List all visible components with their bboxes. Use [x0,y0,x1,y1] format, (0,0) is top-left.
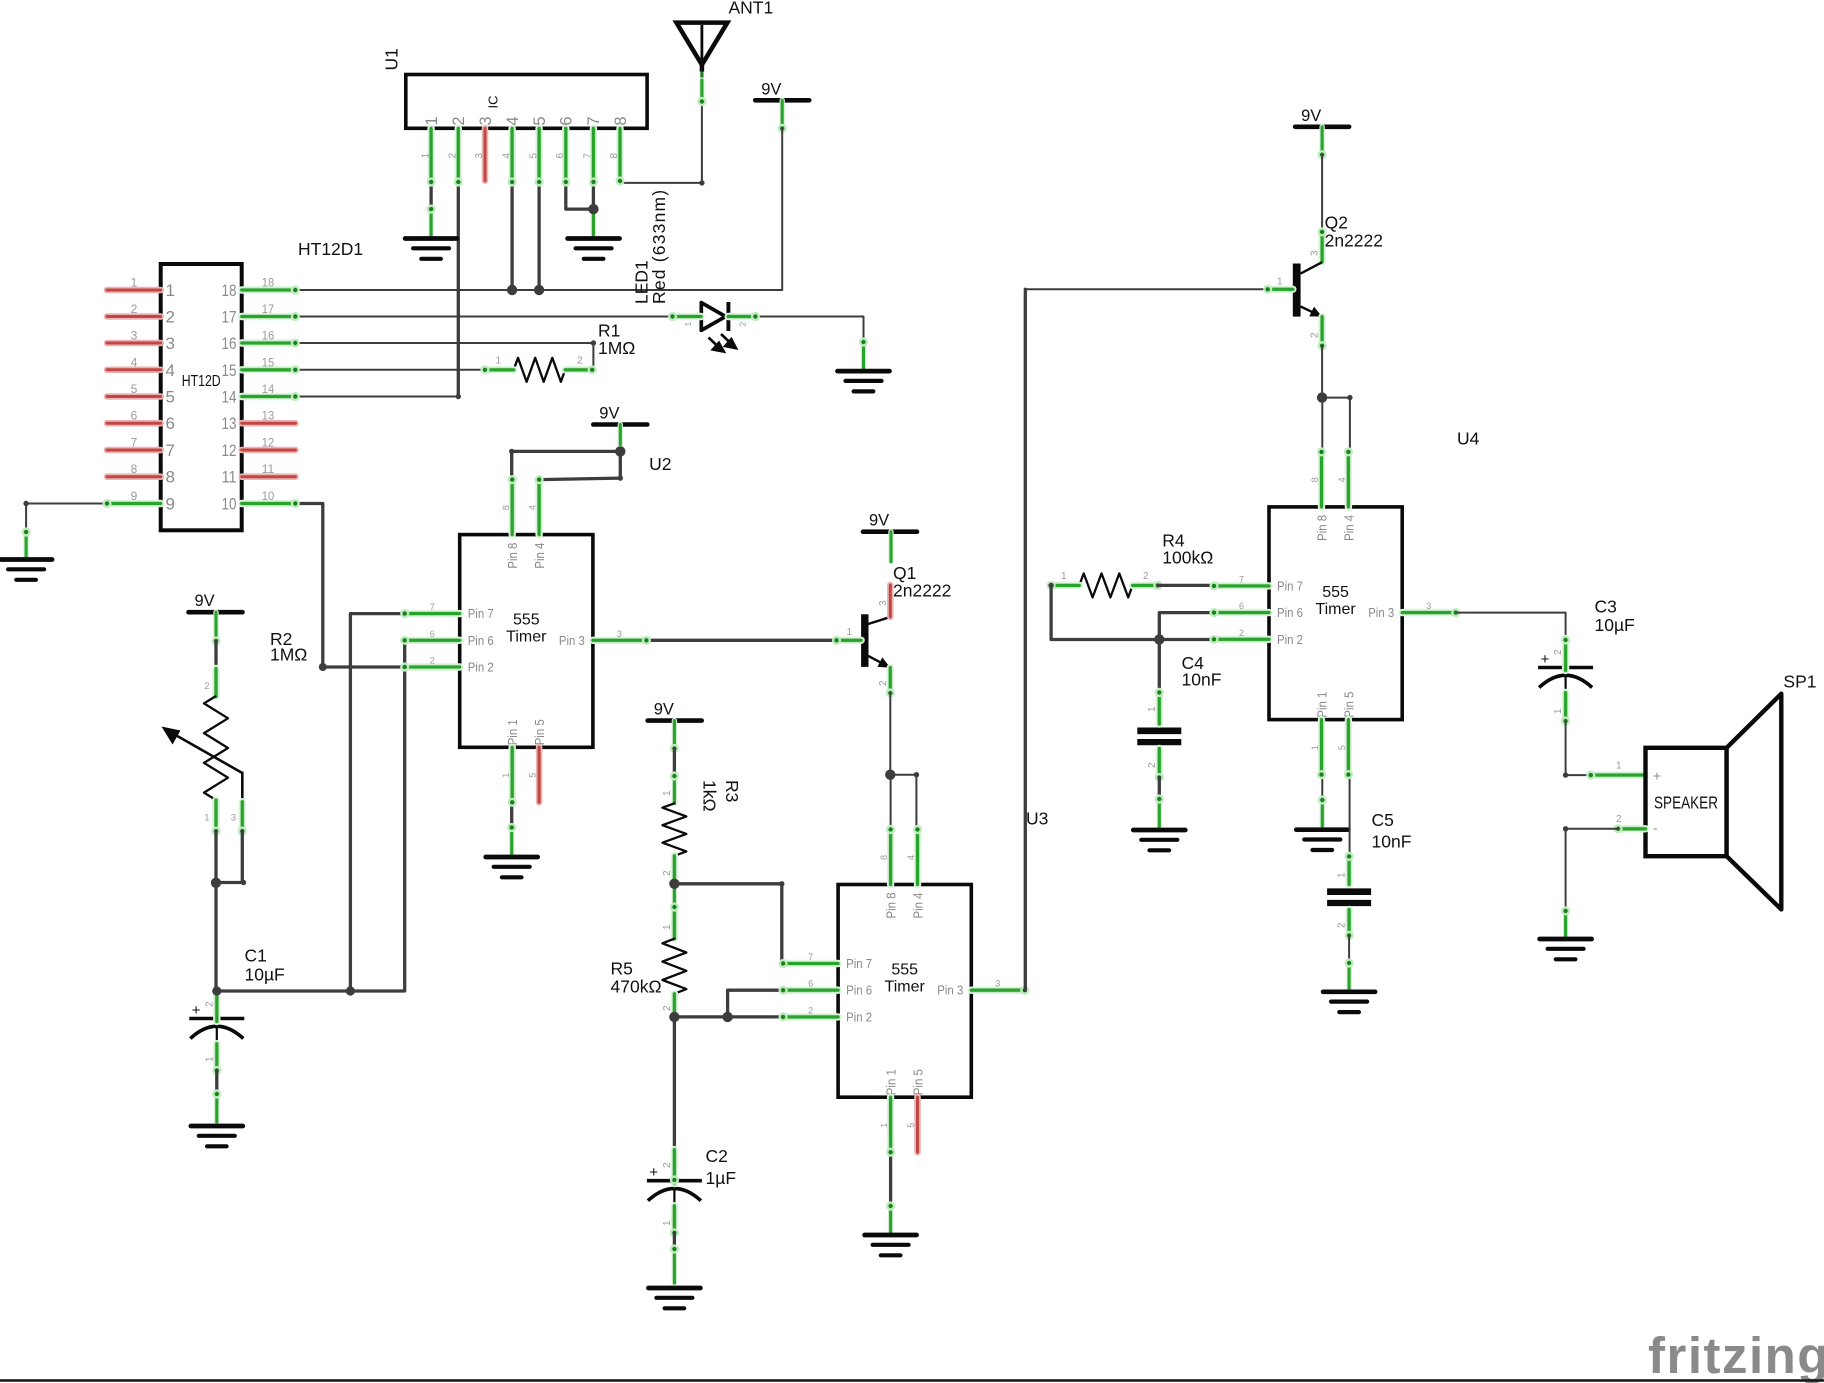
pin 17 of HT12D1 [242,312,300,321]
pin 3 of U2 [593,636,651,645]
pin 1 of U3 [886,1097,895,1157]
pin 1 of Q1 (base) [832,636,861,645]
pin 11 of HT12D1 (unconnected) [242,473,296,480]
pin 5 of U4 [1344,720,1353,780]
node: U4 branch corner [1347,395,1352,400]
wire: node to U4 pin4 branch [1322,398,1350,453]
green wire end: U3 pin1 ground segment [886,1201,895,1235]
svg-text:4: 4 [1337,477,1347,482]
ground: under U1 pin7 [568,239,620,259]
capacitor C3 [1538,651,1593,693]
svg-text:2: 2 [808,1005,813,1015]
pin 2 of LED1 (cathode) [728,312,760,321]
svg-text:8: 8 [879,855,889,860]
svg-text:9V: 9V [869,512,889,530]
wire: C3 to speaker plus [1566,721,1592,775]
ground: U2 pin1 [486,857,538,877]
svg-text:IC: IC [486,96,501,109]
svg-text:11: 11 [262,462,275,476]
svg-text:+: + [192,1002,201,1019]
wire: U1 pin4 down to 9V rail net [510,182,513,290]
wire: U2 pin3 to Q1 base [646,639,836,642]
wire: C2 to ground [673,1233,676,1250]
node: speaker minus wire corner [1563,826,1568,831]
svg-text:+: + [649,1164,658,1181]
svg-text:3: 3 [131,329,138,343]
svg-text:6: 6 [131,409,138,423]
svg-text:1MΩ: 1MΩ [598,338,635,358]
svg-text:2: 2 [1616,814,1622,825]
svg-text:9V: 9V [654,701,674,719]
green wire end: HT12D pin9 ground segment [22,527,31,558]
svg-text:4: 4 [906,855,916,860]
capacitor C5 [1327,892,1371,903]
pin 6 of U1 [561,128,570,186]
svg-text:3: 3 [617,629,622,639]
pin 3 of U4 [1402,608,1460,617]
power symbol 9V (above U2) [593,405,647,425]
pin 7 of U4 [1209,581,1269,590]
pin 2 of SP1 [1614,824,1646,833]
svg-text:2: 2 [450,116,468,125]
svg-text:1: 1 [496,356,502,367]
pin 2 of R5 [671,994,678,1017]
pin 3 of Q1 (collector, unconnected) [887,585,894,617]
svg-text:6: 6 [555,153,566,159]
wire: 9V to U2 pin8 [619,450,622,478]
svg-text:Timer: Timer [885,979,926,996]
555 timer U2 body [460,535,593,748]
svg-text:Pin 5: Pin 5 [1342,692,1356,718]
svg-text:100kΩ: 100kΩ [1162,548,1213,568]
pin 2 of C1 [213,993,220,1022]
svg-text:5: 5 [1337,745,1347,750]
capacitor C2 [647,1164,702,1206]
pin 3 of U1 (unconnected) [482,128,489,180]
wire: node down to U4 pin8 [1321,398,1323,453]
node: branch corner [914,772,919,777]
ground: SP1 [1540,939,1592,959]
svg-text:U2: U2 [649,454,671,474]
svg-text:7: 7 [583,153,594,159]
wire: HT12D pin17 to LED1 [296,316,673,318]
svg-text:9V: 9V [761,80,781,98]
pin 4 of U2 [535,475,544,535]
wire: HT12D pin14 to U1 pin2 [296,396,458,398]
svg-text:Pin 3: Pin 3 [1368,606,1394,620]
svg-text:8: 8 [612,116,630,125]
svg-text:5: 5 [906,1123,916,1128]
svg-text:3: 3 [477,116,495,125]
pin 1 of C2 [670,1206,679,1238]
svg-text:1: 1 [1061,571,1067,582]
pin 1 of R1 [480,365,513,374]
svg-text:8: 8 [609,153,620,159]
svg-text:Pin 7: Pin 7 [846,957,872,971]
pin 8 of U4 [1317,447,1326,507]
wire: U2 pin7 to C1 node [350,614,404,991]
svg-text:Pin 6: Pin 6 [1277,606,1303,620]
svg-text:Pin 8: Pin 8 [506,543,520,569]
svg-text:Pin 3: Pin 3 [559,634,585,648]
pin 6 of U4 [1209,608,1269,617]
wire: HT12D pin16 to R1 pin2 [296,343,593,370]
pin 7 of HT12D1 (unconnected) [107,447,161,454]
ground: C5 [1323,992,1375,1012]
wire: U2 pin1 to ground [510,802,513,829]
svg-text:2: 2 [662,1162,673,1168]
svg-text:1: 1 [131,276,138,290]
svg-text:Pin 4: Pin 4 [912,892,926,918]
green wire end: U2 pin1 ground segment [507,823,516,856]
svg-text:3: 3 [1426,601,1431,611]
pin 6 of U3 [779,986,839,995]
wire: LED1 cathode to ground [755,317,863,344]
wire: HT12D pin9 to ground [26,504,107,533]
wire: U1 pin6 jog to pin7 [566,182,594,209]
pin 5 of U3 (unconnected) [914,1097,921,1152]
pin 1 of C5 [1345,852,1354,885]
wire: U2 pin6 to C1 node [217,640,405,991]
svg-text:3: 3 [1310,250,1321,256]
wire: C2 to R5 node [673,1017,676,1151]
pin 2 of Q1 (emitter) [886,668,895,698]
svg-text:Pin 6: Pin 6 [846,984,872,998]
transistor Q2 [1293,262,1322,316]
wire: 9V to R2 pin2 [214,641,217,670]
svg-text:8: 8 [131,462,138,476]
wire: pot node down to C1 node [214,883,217,991]
green wire end: U1 pin7 lower segment [591,209,596,236]
wire: 9V down to pin18 rail [781,128,783,290]
svg-text:8: 8 [501,505,511,510]
svg-text:Pin 5: Pin 5 [912,1069,926,1095]
wire: HT12D pin18 rail horizontal [296,289,782,291]
green wire end: C5 ground segment [1345,958,1354,988]
pin 2 of R3 [671,856,678,884]
wire: 9V to R3 [673,748,676,777]
pin 2 of C2 [670,1150,679,1185]
svg-text:2: 2 [662,1005,673,1011]
junction: C4 node [1154,634,1164,644]
svg-text:4: 4 [131,355,138,369]
wire: U3 pin1 to ground [889,1153,892,1208]
svg-text:18: 18 [262,276,275,290]
svg-text:17: 17 [262,302,275,316]
pin 2 of C5 [1345,910,1354,941]
pin 8 of HT12D1 (unconnected) [107,473,161,480]
svg-text:18: 18 [222,281,237,300]
wire: speaker minus to ground [1566,829,1619,912]
svg-text:R5: R5 [611,959,633,979]
wire: R3 node to U3 pin7 [674,884,838,964]
svg-text:3: 3 [878,600,889,606]
pin 10 of HT12D1 [242,499,300,508]
junction: R5-C2 node [669,1012,679,1022]
svg-text:10µF: 10µF [245,965,285,985]
svg-text:2: 2 [1147,762,1158,768]
wire: R5 node to U3 pin2 [674,1015,838,1018]
svg-text:470kΩ: 470kΩ [611,977,662,997]
svg-text:14: 14 [222,388,237,407]
svg-text:1: 1 [420,153,431,159]
svg-text:17: 17 [222,308,237,327]
pin 2 of R1 [565,365,597,374]
svg-text:2: 2 [1143,571,1149,582]
pin 1 of Q2 (base) [1263,285,1293,294]
pin 1 of C1 [212,1044,221,1075]
svg-text:HT12D1: HT12D1 [298,239,363,259]
ground: HT12D pin9 [0,560,52,580]
node: R4 pin1 wire corner [1048,583,1053,588]
pin of 9V above R2 [211,612,220,645]
svg-text:6: 6 [166,414,175,433]
pin 3 of Q2 (collector) [1318,227,1327,261]
svg-text:9: 9 [166,495,175,514]
svg-text:2: 2 [577,356,583,367]
node: pin9 wire corner [23,501,28,506]
svg-text:Pin 3: Pin 3 [937,984,963,998]
node: pin7 wire corner [779,881,784,886]
capacitor C4 [1137,731,1181,742]
svg-text:C2: C2 [706,1146,728,1166]
pin of 9V above U2 [616,425,625,455]
svg-text:HT12D: HT12D [182,373,221,390]
svg-text:3: 3 [166,334,175,353]
node: U2 pin8 wire corner [509,449,514,454]
svg-text:3: 3 [231,813,236,824]
pin 2 of U1 [454,128,463,186]
resistor R4 [1079,573,1132,597]
wire: R2 pin1 down to node [214,831,217,883]
svg-text:14: 14 [262,382,275,396]
svg-text:Pin 7: Pin 7 [468,607,494,621]
pin 2 of C3 [1561,635,1570,670]
wire: C4 node down to C4 [1158,640,1161,694]
svg-text:7: 7 [131,436,138,450]
svg-text:1: 1 [1277,277,1283,288]
svg-text:1: 1 [662,1220,673,1226]
pin 4 of U1 [507,128,516,186]
svg-text:8: 8 [166,468,175,487]
resistor R3 [662,803,686,856]
power symbol 9V (above Q1) [863,512,917,532]
svg-text:7: 7 [166,441,175,460]
pin 7 of U1 [589,128,598,186]
IC HT12D1 body [161,264,242,530]
pin 1 of R2 [211,800,220,836]
pin 5 of U2 (unconnected) [536,747,543,802]
ground: under U1 pin1 [405,239,457,259]
svg-text:4: 4 [166,361,175,380]
pin 1 of R4 [1047,581,1080,590]
svg-text:5: 5 [531,116,549,125]
green wire end: U4 pin1 ground segment [1318,795,1327,826]
svg-text:4: 4 [501,153,512,159]
pin 1 of SP1 [1586,771,1645,780]
svg-text:7: 7 [1239,574,1244,584]
wire: U3 pin3 up to Q2 base [1023,289,1027,990]
svg-text:12: 12 [222,441,237,460]
pin 4 of HT12D1 (unconnected) [107,366,161,373]
svg-text:Pin 2: Pin 2 [1277,633,1303,647]
wire: U1 pin2 to HT12D pin14 net vertical [457,182,460,397]
pin 2 of U2 [400,662,460,671]
pin 2 of U4 [1209,635,1269,644]
svg-text:Pin 1: Pin 1 [1316,692,1330,718]
svg-text:555: 555 [513,612,540,629]
svg-text:Pin 8: Pin 8 [885,892,899,918]
pin 6 of U2 [400,636,460,645]
svg-text:2: 2 [878,680,889,686]
pin 3 of R2 (wiper) [238,802,247,836]
pin 13 of HT12D1 (unconnected) [242,420,296,427]
svg-text:12: 12 [262,436,275,450]
resistor R5 [662,939,686,994]
green wire end: C4 ground segment [1155,794,1164,826]
wire: R4 pin1 to C4 node [1051,585,1214,639]
pin 6 of HT12D1 (unconnected) [107,420,161,427]
pin 1 of HT12D1 (unconnected) [107,287,161,294]
pin 14 of HT12D1 [242,392,300,401]
svg-text:7: 7 [585,116,603,125]
wire: 9V to Q2 collector [1321,155,1323,233]
svg-text:9V: 9V [1301,107,1321,125]
green wire end: LED ground segment [859,337,868,370]
svg-text:U4: U4 [1457,429,1480,449]
svg-text:2: 2 [662,870,673,876]
svg-text:1: 1 [1337,872,1348,878]
pin 15 of HT12D1 [242,365,300,374]
svg-text:2: 2 [204,681,209,692]
junction: C1 node pin7 [346,986,355,995]
wire: Q1 emitter to U3 supply node [889,693,891,775]
svg-text:+: + [1541,651,1550,668]
svg-text:2: 2 [131,302,138,316]
wire: U2 pin4 jog [539,478,621,480]
svg-text:8: 8 [1310,477,1320,482]
ground: U3 pin1 [865,1235,917,1255]
svg-text:16: 16 [262,329,275,343]
svg-text:Pin 1: Pin 1 [506,719,520,745]
wire: R4 pin2 to U4 pin7 [1158,584,1214,587]
green wire end: R5 pin1 segment [672,884,677,908]
pin 2 of C4 [1155,749,1164,783]
pin 2 of R4 [1133,581,1163,590]
green wire end: C1 ground segment [212,1089,221,1122]
svg-text:7: 7 [808,952,813,962]
svg-text:10: 10 [262,489,275,503]
svg-text:7: 7 [430,602,435,612]
junction: R3-R5 node [669,879,679,889]
svg-text:2: 2 [1310,332,1321,338]
svg-text:Pin 4: Pin 4 [533,543,547,569]
wire: U4 pin1 to ground [1321,775,1323,802]
pin 7 of U2 [400,609,460,618]
svg-text:1: 1 [662,790,673,796]
svg-text:Pin 5: Pin 5 [533,719,547,745]
capacitor C1 [189,1002,244,1044]
svg-text:2: 2 [448,153,459,159]
svg-text:2: 2 [1553,649,1564,655]
svg-text:1: 1 [847,627,853,638]
svg-text:9V: 9V [599,405,619,423]
junction: pin5 on rail [534,285,544,295]
svg-text:1MΩ: 1MΩ [270,645,307,665]
pin 2 of HT12D1 (unconnected) [107,313,161,320]
bottom border line [0,1379,1824,1382]
ground: LED1 [838,371,890,391]
pin 4 of U4 [1344,447,1353,507]
pin 5 of U1 [535,128,544,186]
svg-text:Pin 4: Pin 4 [1342,515,1356,541]
svg-text:2n2222: 2n2222 [1325,231,1383,251]
svg-text:10nF: 10nF [1372,832,1412,852]
pin 1 of U4 [1317,720,1326,780]
svg-text:5: 5 [166,388,175,407]
pin 16 of HT12D1 [242,338,300,347]
svg-text:ANT1: ANT1 [729,0,774,18]
svg-text:2: 2 [205,1001,216,1007]
svg-text:5: 5 [131,382,138,396]
pin 12 of HT12D1 (unconnected) [242,447,296,454]
pin 2 of R2 [212,669,219,697]
green wire end: U1 pin1 lower segment [427,205,436,237]
svg-text:2: 2 [166,308,175,327]
svg-text:SPEAKER: SPEAKER [1654,793,1718,813]
node: pin14 wire end [456,394,461,399]
svg-text:4: 4 [528,505,538,510]
pin 1 of U2 [508,747,517,807]
pin 1 of C4 [1155,688,1164,724]
svg-text:13: 13 [222,414,237,433]
svg-text:Pin 2: Pin 2 [846,1010,872,1024]
pin of 9V above Q1 [888,532,893,562]
pin 5 of HT12D1 (unconnected) [107,393,161,400]
pin 3 of U3 [971,986,1029,995]
svg-text:9: 9 [131,489,138,503]
svg-text:15: 15 [262,355,275,369]
svg-text:Pin 7: Pin 7 [1277,579,1303,593]
pin 2 of U3 [779,1012,839,1021]
pin 3 of HT12D1 (unconnected) [107,340,161,347]
wire: HT12D pin15 to R1 pin1 [296,369,485,371]
pin 1 of R5 [670,902,679,938]
wire: U1 pin8 to antenna [620,182,702,184]
svg-text:2: 2 [430,656,435,666]
ground: C2 [648,1288,700,1308]
svg-text:C1: C1 [245,946,267,966]
junction: pin6 branch node [722,1012,732,1022]
green wire end: SP1 ground segment [1561,906,1570,936]
pin of 9V top right [778,100,787,133]
svg-text:1kΩ: 1kΩ [700,780,720,812]
wire: U4 pin3 to C3 [1457,613,1565,640]
wire: C1 to ground [215,1071,218,1096]
power symbol 9V (above R3) [648,701,702,721]
svg-text:U1: U1 [382,48,402,70]
wire: C5 to ground [1348,935,1350,964]
node: R2 wiper wire end [241,880,246,885]
svg-text:555: 555 [1322,584,1349,601]
svg-text:6: 6 [430,629,435,639]
svg-text:-: - [1653,821,1658,836]
svg-text:1: 1 [204,813,209,824]
node: antenna wire end [699,180,704,185]
wire: U1 pin5 down to 9V rail net [537,182,540,290]
svg-text:Pin 1: Pin 1 [885,1069,899,1095]
svg-text:9V: 9V [195,592,215,610]
